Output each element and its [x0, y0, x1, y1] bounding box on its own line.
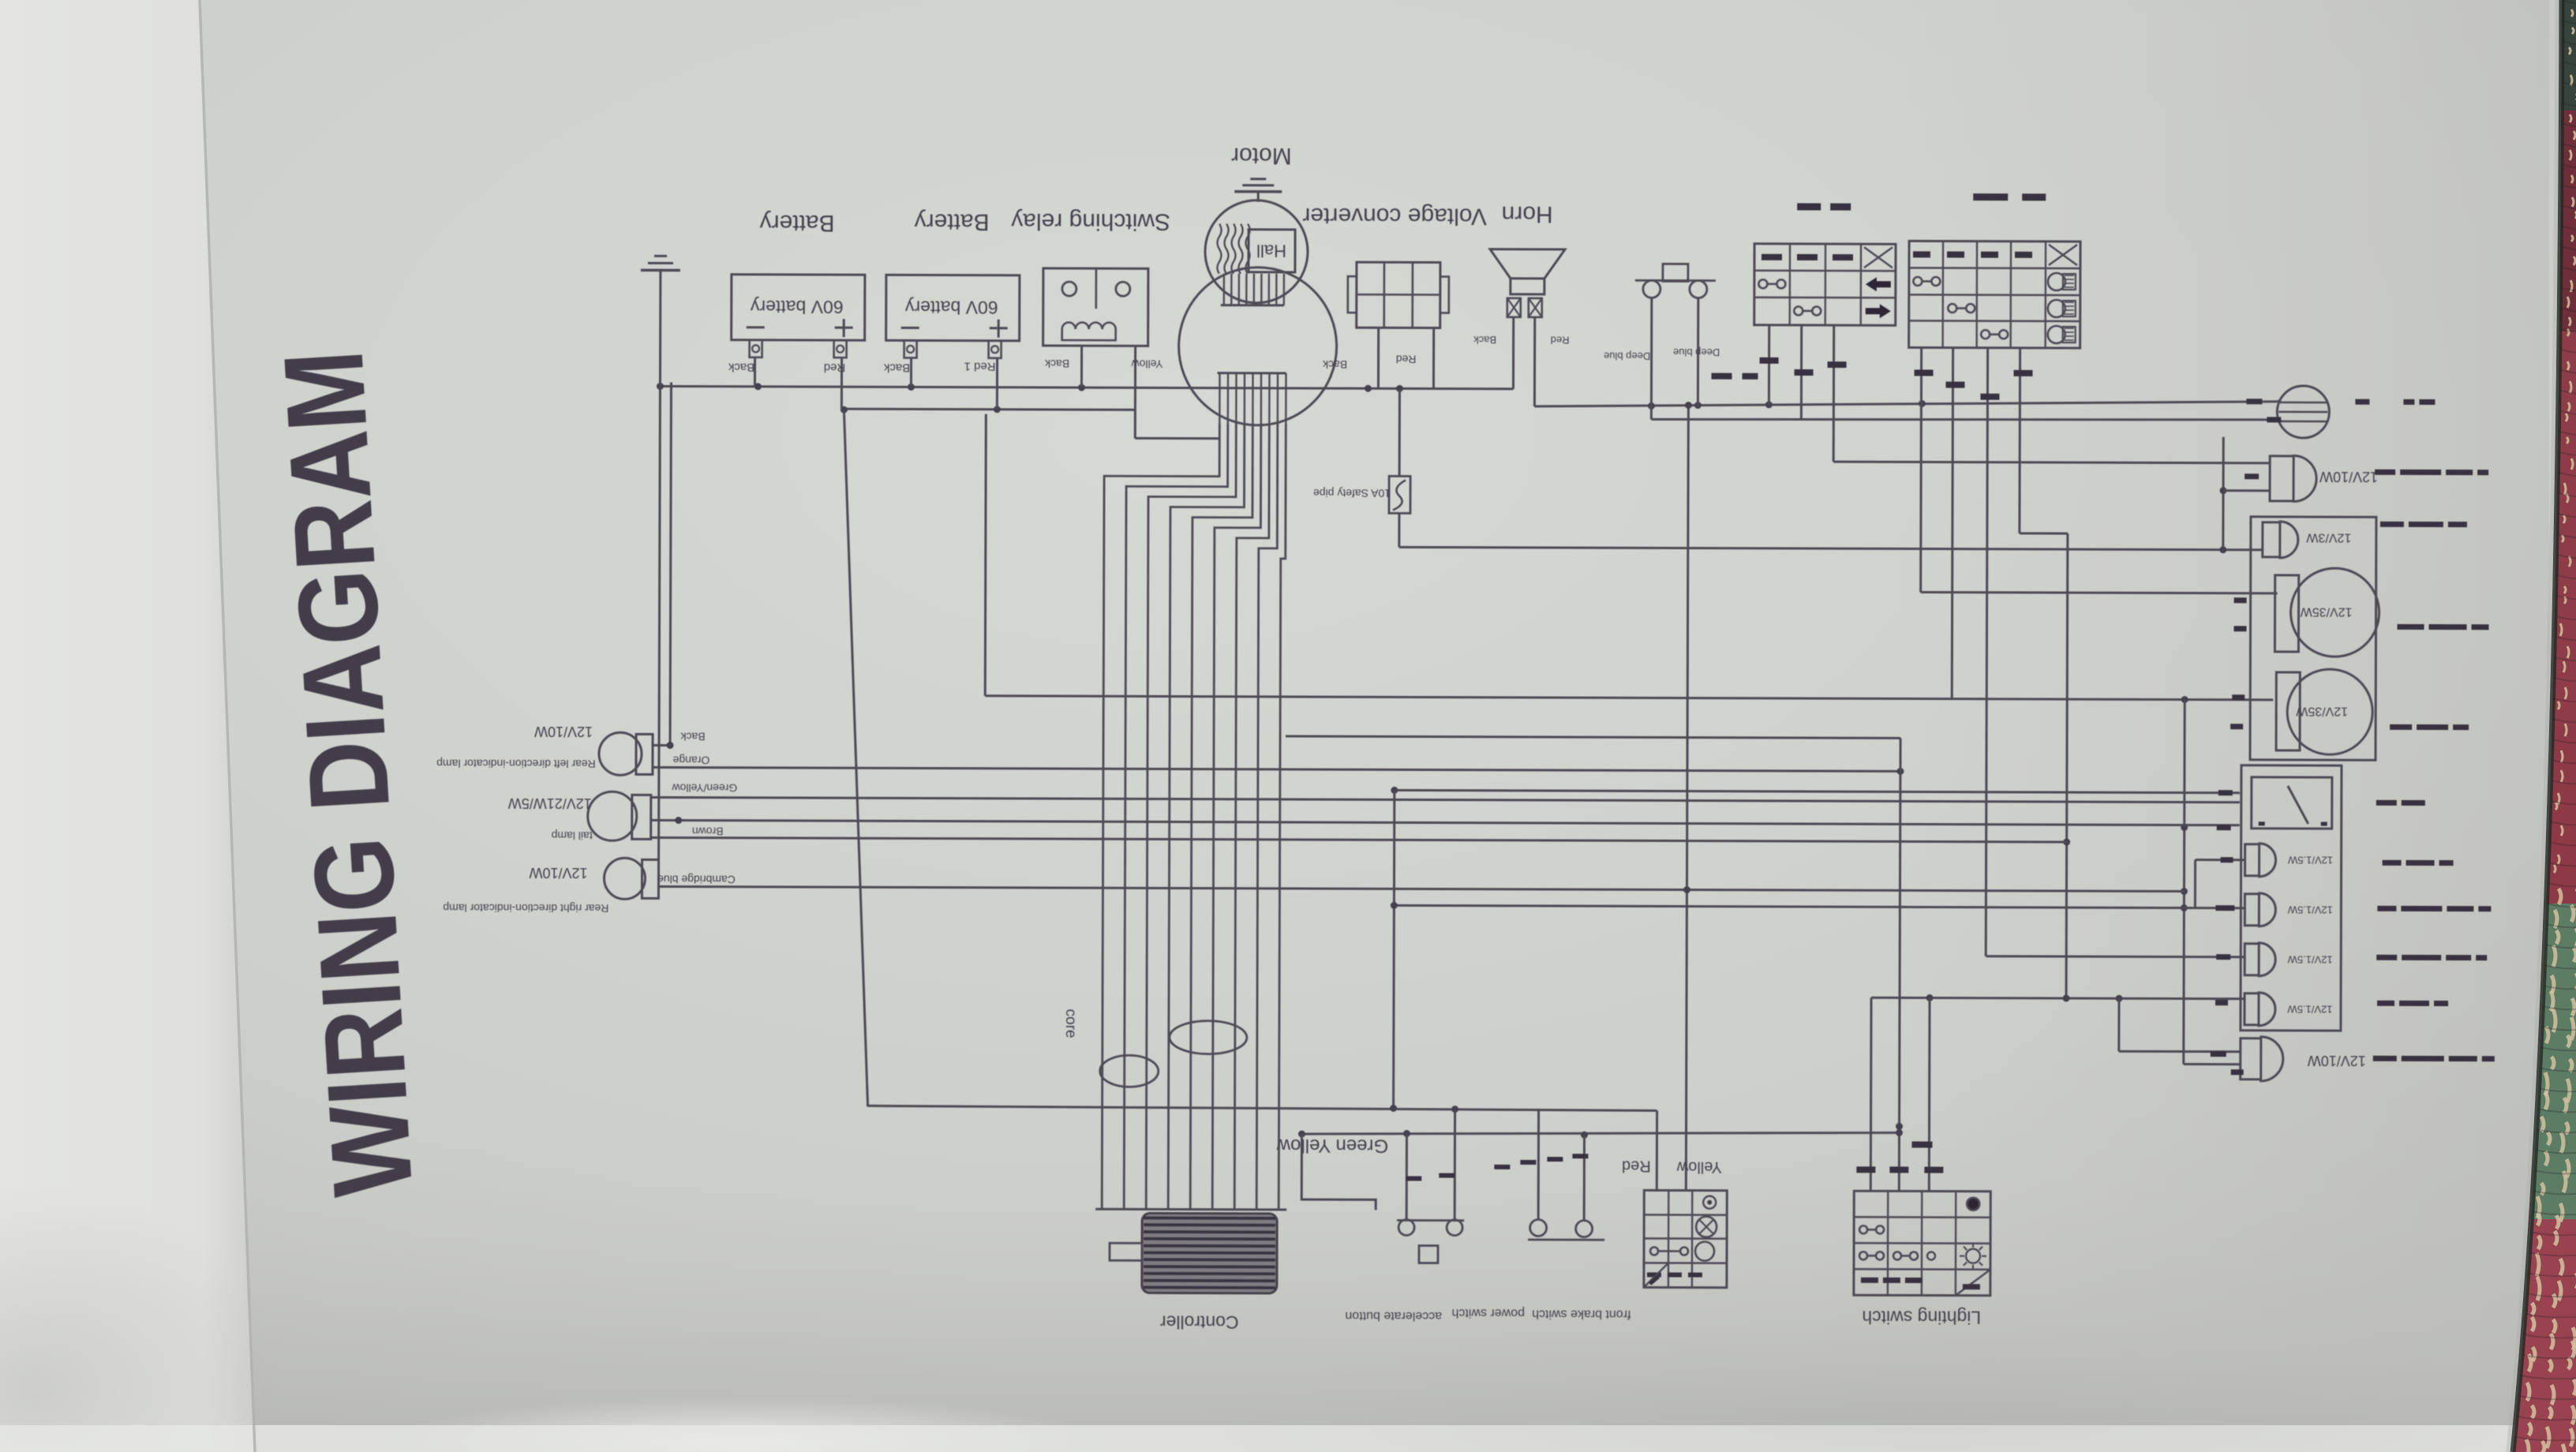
svg-text:Hall: Hall — [1256, 241, 1286, 260]
svg-text:12V/1.5W: 12V/1.5W — [2287, 954, 2333, 966]
svg-text:Back: Back — [1322, 358, 1347, 371]
svg-text:Back: Back — [728, 361, 754, 374]
svg-text:10A Safety pipe: 10A Safety pipe — [1313, 487, 1391, 500]
svg-text:front brake switch: front brake switch — [1532, 1307, 1631, 1320]
svg-text:60V battery: 60V battery — [904, 298, 998, 318]
svg-text:12V/3W: 12V/3W — [2305, 531, 2351, 544]
svg-text:Back: Back — [1044, 357, 1069, 370]
svg-text:12V/10W: 12V/10W — [529, 865, 587, 881]
svg-text:12V/35W: 12V/35W — [2295, 705, 2348, 718]
svg-text:12V/10W: 12V/10W — [2308, 1053, 2366, 1068]
svg-text:power switch: power switch — [1451, 1306, 1525, 1319]
svg-text:Voltage converter: Voltage converter — [1302, 203, 1487, 230]
svg-text:Switching relay: Switching relay — [1011, 208, 1170, 235]
svg-text:Back: Back — [680, 731, 705, 743]
svg-text:Controller: Controller — [1159, 1312, 1238, 1333]
svg-text:Orange: Orange — [672, 754, 710, 767]
svg-text:Rear left direction-indicator: Rear left direction-indicator lamp — [436, 758, 596, 771]
svg-text:Deep blue: Deep blue — [1604, 350, 1650, 362]
svg-text:Horn: Horn — [1502, 201, 1553, 227]
svg-text:Motor: Motor — [1231, 143, 1292, 169]
svg-text:Yellow: Yellow — [1131, 358, 1163, 371]
svg-text:Red: Red — [1396, 354, 1417, 366]
svg-text:Green Yellow: Green Yellow — [1276, 1135, 1388, 1156]
svg-text:12V/35W: 12V/35W — [2300, 605, 2353, 619]
svg-text:12V/1.5W: 12V/1.5W — [2287, 855, 2333, 866]
svg-text:Red: Red — [1622, 1157, 1651, 1174]
svg-text:12V/10W: 12V/10W — [534, 724, 593, 739]
svg-text:12V/21W/5W: 12V/21W/5W — [508, 795, 592, 811]
svg-text:Battery: Battery — [915, 208, 990, 234]
svg-text:Back: Back — [883, 361, 910, 374]
svg-text:core: core — [1062, 1009, 1079, 1038]
svg-text:accelerate button: accelerate button — [1345, 1309, 1442, 1323]
svg-text:Deep blue: Deep blue — [1673, 346, 1720, 358]
svg-text:12V/1.5W: 12V/1.5W — [2287, 1004, 2333, 1016]
svg-text:12V/10W: 12V/10W — [2320, 469, 2378, 485]
svg-text:Red 1: Red 1 — [964, 360, 995, 373]
svg-text:Brown: Brown — [692, 825, 724, 838]
svg-text:Yellow: Yellow — [1676, 1158, 1722, 1176]
svg-text:Back: Back — [1473, 334, 1496, 346]
svg-text:Green/Yellow: Green/Yellow — [672, 782, 738, 795]
svg-text:Cambridge blue: Cambridge blue — [657, 874, 736, 886]
svg-text:Red: Red — [1551, 335, 1570, 346]
svg-text:60V battery: 60V battery — [750, 297, 843, 317]
svg-text:Rear right direction-indicator: Rear right direction-indicator lamp — [443, 902, 608, 915]
svg-text:Red: Red — [824, 361, 846, 374]
svg-text:12V/1.5W: 12V/1.5W — [2287, 904, 2333, 916]
svg-text:Lighting switch: Lighting switch — [1862, 1307, 1981, 1327]
svg-text:tail lamp: tail lamp — [551, 829, 592, 842]
svg-text:Battery: Battery — [760, 210, 835, 236]
